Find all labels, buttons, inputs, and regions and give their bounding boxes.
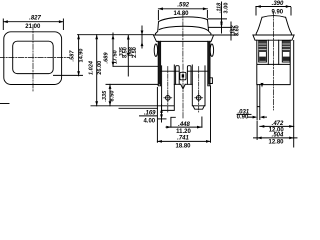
svg-text:.390: .390 bbox=[272, 1, 284, 7]
svg-text:.592: .592 bbox=[177, 3, 189, 9]
narrow slots bbox=[176, 66, 180, 85]
dim .335/8.50 upper (latch depth) bbox=[127, 35, 129, 76]
rocker arcs bbox=[159, 17, 208, 22]
rocker sides bbox=[155, 22, 158, 35]
serrated bands bbox=[259, 41, 267, 62]
svg-text:0.90: 0.90 bbox=[237, 114, 249, 120]
svg-text:11.20: 11.20 bbox=[176, 129, 191, 135]
dim 1.024/26.00 bbox=[96, 35, 98, 106]
body bottom segments bbox=[174, 83, 192, 85]
outer rounded rect bbox=[4, 32, 62, 85]
ext lines bbox=[91, 105, 162, 107]
svg-text:1.024: 1.024 bbox=[89, 60, 95, 75]
svg-text:.118: .118 bbox=[217, 2, 223, 13]
svg-text:14.80: 14.80 bbox=[173, 11, 189, 17]
left terminal bbox=[162, 65, 175, 110]
dim .169/4.00 bbox=[119, 107, 157, 109]
svg-text:4.00: 4.00 bbox=[143, 118, 155, 124]
svg-text:.504: .504 bbox=[272, 133, 284, 139]
v centerline bbox=[32, 25, 34, 93]
svg-text:12.80: 12.80 bbox=[268, 139, 284, 145]
bezel trapezoid bbox=[153, 35, 213, 41]
centerlines bbox=[182, 12, 184, 62]
internal shelf arrow bbox=[261, 83, 264, 88]
centerline bbox=[273, 12, 275, 110]
svg-text:2.50: 2.50 bbox=[132, 47, 138, 58]
inner slot verticals bbox=[268, 40, 278, 64]
svg-text:.741: .741 bbox=[177, 135, 189, 141]
svg-text:.689: .689 bbox=[104, 52, 110, 64]
svg-text:3.60: 3.60 bbox=[235, 25, 241, 36]
inner rounded rect bbox=[13, 41, 54, 73]
svg-text:26.00: 26.00 bbox=[97, 61, 103, 75]
svg-text:.335: .335 bbox=[102, 90, 108, 102]
dim .689/17.50 bbox=[112, 33, 114, 66]
right terminal bbox=[192, 65, 205, 106]
h centerline bbox=[0, 57, 69, 59]
svg-text:.448: .448 bbox=[178, 122, 190, 128]
dim .741/18.80 bbox=[157, 140, 210, 142]
svg-text:14.90: 14.90 bbox=[78, 49, 84, 63]
svg-text:8.50: 8.50 bbox=[109, 91, 115, 102]
rocker bbox=[262, 16, 286, 18]
dim .592/14.80 bbox=[158, 8, 207, 10]
svg-text:.827: .827 bbox=[29, 16, 41, 22]
dim .390/9.90 bbox=[256, 6, 291, 8]
body walls bbox=[158, 41, 160, 85]
svg-text:9.90: 9.90 bbox=[271, 10, 283, 16]
top ext line (panel surface) bbox=[78, 34, 154, 36]
right wall bottom step bbox=[210, 78, 212, 84]
dim .587/14.90 bbox=[78, 35, 80, 76]
dim .335/8.50 lower bbox=[109, 84, 111, 105]
svg-text:21.00: 21.00 bbox=[25, 24, 41, 30]
center terminal bbox=[180, 72, 186, 80]
svg-text:.169: .169 bbox=[144, 110, 156, 116]
dim .098/2.50 (bezel thickness) bbox=[141, 26, 143, 48]
bezel trapezoid bbox=[253, 35, 294, 40]
body bbox=[257, 40, 290, 84]
dim .448/11.20 bbox=[166, 126, 202, 128]
dim .504/12.80 bbox=[254, 137, 298, 139]
dim .472/12.00 bbox=[260, 125, 294, 127]
ext line shelf bbox=[113, 65, 158, 67]
svg-text:.587: .587 bbox=[70, 50, 76, 62]
svg-text:18.80: 18.80 bbox=[175, 143, 191, 149]
svg-text:3.00: 3.00 bbox=[224, 3, 230, 14]
left edge mark bbox=[0, 103, 9, 105]
dim .827/21.00 bbox=[3, 19, 63, 30]
ears bbox=[154, 44, 157, 56]
svg-text:.472: .472 bbox=[272, 121, 284, 127]
dim .031/0.90 leader bbox=[237, 113, 251, 115]
svg-text:17.50: 17.50 bbox=[112, 50, 118, 64]
dims .118/3.00 and .142/3.60 right of rocker bbox=[208, 19, 237, 35]
terminal tab bbox=[257, 85, 260, 107]
